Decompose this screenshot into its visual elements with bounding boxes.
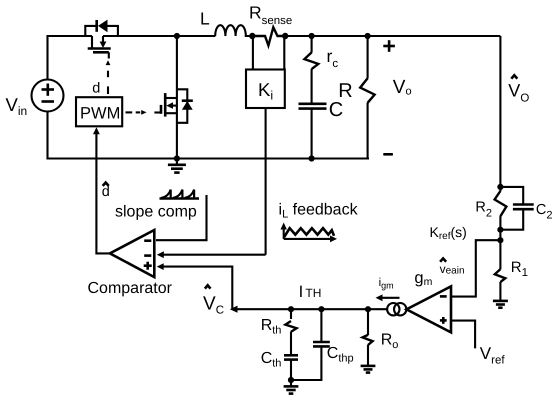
svg-text:ITH: ITH	[299, 283, 322, 301]
svg-text:d: d	[92, 80, 100, 96]
svg-text:Comparator: Comparator	[88, 280, 173, 297]
svg-text:PWM: PWM	[80, 105, 120, 123]
svg-text:R: R	[338, 80, 352, 102]
svg-text:L: L	[200, 9, 210, 29]
svg-text:slope comp: slope comp	[115, 204, 197, 221]
svg-text:d: d	[102, 184, 110, 200]
svg-text:iL feedback: iL feedback	[279, 202, 359, 221]
